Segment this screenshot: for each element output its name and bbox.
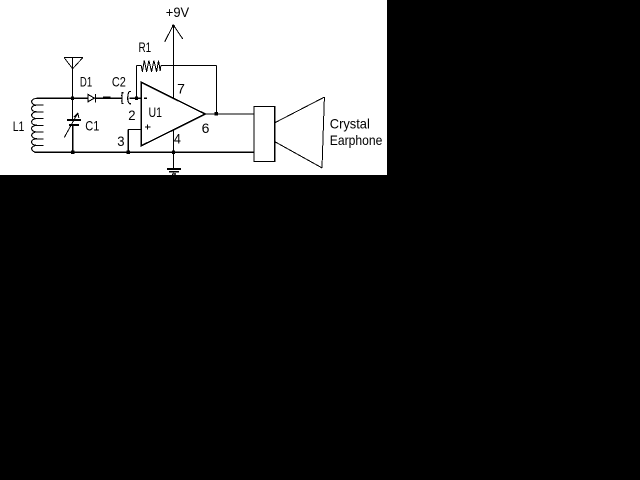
svg-text:7: 7	[177, 81, 185, 97]
bottom rail	[35, 151, 255, 153]
earphone transducer body	[254, 107, 275, 162]
svg-text:Crystal: Crystal	[330, 115, 370, 131]
wire blob artifact	[103, 97, 110, 99]
wire feedback vertical right	[215, 66, 217, 115]
minus input mark	[144, 97, 147, 99]
plus input mark	[145, 125, 150, 130]
svg-text:U1: U1	[149, 104, 163, 120]
white schematic sheet	[0, 0, 387, 175]
svg-text:2: 2	[128, 107, 135, 123]
wire noninverting input	[128, 130, 141, 153]
node: plus input to rail	[127, 151, 130, 154]
node: output junction	[214, 112, 218, 116]
ground	[167, 169, 181, 175]
op-amp U1	[141, 82, 205, 146]
wire top rail L1 to diode	[37, 97, 89, 99]
svg-text:3: 3	[117, 133, 124, 149]
node A: antenna/L1/D1 junction	[71, 97, 74, 100]
variable capacitor C1	[64, 98, 81, 152]
svg-text:L1: L1	[13, 118, 25, 134]
+9V supply arrow	[165, 25, 183, 98]
svg-text:4: 4	[174, 131, 181, 147]
node: pin4 rail junction	[172, 151, 175, 154]
wire pin 4 to ground	[172, 130, 174, 169]
capacitor C2	[121, 91, 131, 103]
node: inverting input junction	[135, 97, 138, 100]
resistor R1	[137, 60, 217, 71]
wire C2 to op-amp	[130, 97, 142, 99]
antenna	[64, 57, 83, 98]
diode D1	[88, 94, 96, 103]
svg-text:C2: C2	[112, 74, 126, 90]
svg-text:Earphone: Earphone	[330, 132, 383, 148]
wire D1 to C2	[95, 97, 122, 99]
svg-text:6: 6	[202, 120, 210, 136]
svg-text:D1: D1	[80, 73, 92, 89]
inductor L1	[32, 98, 44, 152]
wire feedback vertical left	[136, 66, 138, 99]
svg-text:R1: R1	[139, 39, 152, 55]
svg-text:+9V: +9V	[166, 4, 190, 20]
svg-text:C1: C1	[85, 118, 99, 134]
wire output	[205, 113, 254, 115]
node: C1 bottom rail junction	[71, 151, 74, 154]
earphone horn	[275, 97, 325, 168]
